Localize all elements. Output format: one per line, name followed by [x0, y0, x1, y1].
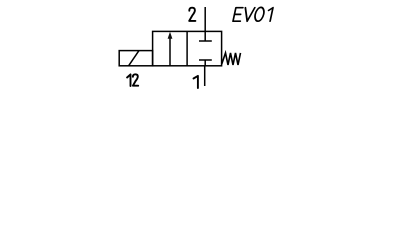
- pilot port 12 label: [127, 74, 138, 86]
- solenoid Y1 coil box: [119, 51, 152, 66]
- port 2 wire: [204, 7, 206, 31]
- blocked port T (bottom, right position box): [199, 60, 212, 66]
- flow path arrow (left position box): [168, 32, 173, 66]
- port 2 label: [189, 8, 195, 21]
- blocked port T (top, right position box): [199, 31, 212, 41]
- component tag EV01: [233, 7, 273, 21]
- valve V1 body: two position boxes: [153, 31, 222, 65]
- port 1 wire: [204, 66, 206, 86]
- spring return: [222, 53, 241, 65]
- port 1 label: [194, 76, 198, 88]
